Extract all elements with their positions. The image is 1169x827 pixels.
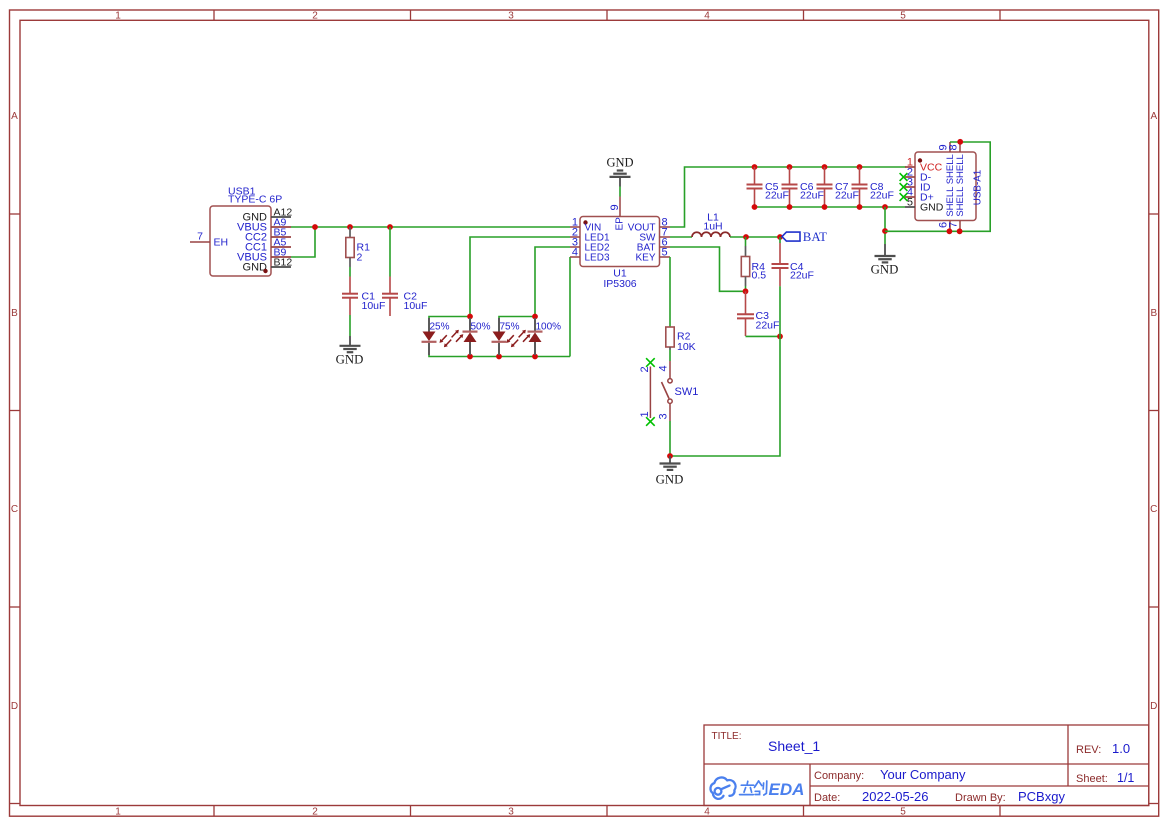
wire LED pair1 top rail	[429, 317, 470, 319]
junction gnd rail C5	[752, 204, 758, 210]
svg-text:4: 4	[704, 807, 710, 818]
svg-text:GND: GND	[243, 262, 268, 274]
svg-text:5: 5	[900, 807, 906, 818]
svg-text:9: 9	[609, 204, 621, 210]
wire VBUS net (USB1 A9 to U1 VIN)	[291, 226, 570, 228]
svg-text:2: 2	[312, 11, 318, 22]
svg-text:22uF: 22uF	[835, 190, 859, 202]
svg-text:1: 1	[115, 807, 121, 818]
junction shell/gnd	[882, 228, 888, 234]
LED 50%	[452, 318, 491, 355]
inductor L1 1uH	[692, 212, 730, 238]
svg-text:USB-A1: USB-A1	[973, 170, 984, 205]
junction VOUT at C7	[822, 164, 828, 170]
svg-text:LED3: LED3	[585, 253, 610, 264]
junction shell pin6	[947, 228, 953, 234]
pin 4 no-connect	[900, 193, 908, 201]
switch SW1	[639, 358, 698, 426]
svg-text:22uF: 22uF	[765, 190, 789, 202]
junction bottom rail 75%	[496, 354, 502, 360]
junction bottom rail 100%	[532, 354, 538, 360]
svg-text:B12: B12	[274, 257, 293, 269]
junction BAT at C4	[777, 234, 783, 240]
svg-text:3: 3	[508, 11, 514, 22]
svg-text:1/1: 1/1	[1117, 771, 1134, 785]
junction LED1 top rail	[467, 314, 473, 320]
wire SW to L1	[670, 236, 692, 238]
wire LED2 (U1 pin3 to 75/100 pair)	[535, 247, 570, 317]
capacitor C6 22uF	[782, 167, 824, 207]
wire LED bottom rail	[429, 355, 570, 357]
LED 100%	[519, 318, 562, 355]
wire SW1 to ground	[669, 421, 671, 456]
shell pins 9 8 top	[949, 142, 951, 152]
junction gnd rail C6	[787, 204, 793, 210]
svg-text:GND: GND	[606, 156, 633, 170]
junction LED2 top rail	[532, 314, 538, 320]
wire R1 to C1	[349, 267, 351, 277]
svg-text:22uF: 22uF	[870, 190, 894, 202]
svg-text:50%: 50%	[471, 322, 491, 333]
capacitor C1 10uF	[342, 277, 385, 316]
junction VBUS at R1	[347, 224, 353, 230]
junction VOUT at C8	[857, 164, 863, 170]
junction shell pin8	[957, 139, 963, 145]
svg-text:10K: 10K	[677, 341, 696, 353]
connector USB1 TYPE-C 6P	[190, 186, 292, 277]
capacitor C5 22uF	[747, 167, 789, 207]
svg-text:7: 7	[947, 222, 959, 228]
capacitor C7 22uF	[817, 167, 859, 207]
svg-text:3: 3	[508, 807, 514, 818]
pin 3 no-connect	[900, 183, 908, 191]
svg-text:Sheet_1: Sheet_1	[768, 738, 820, 754]
svg-text:5: 5	[900, 11, 906, 22]
svg-text:REV:: REV:	[1076, 744, 1101, 756]
svg-text:22uF: 22uF	[800, 190, 824, 202]
svg-text:GND: GND	[656, 473, 684, 487]
svg-text:SW1: SW1	[675, 386, 699, 398]
svg-text:1.0: 1.0	[1112, 741, 1130, 756]
svg-text:5: 5	[907, 197, 913, 209]
wire BAT node to R4	[745, 237, 747, 246]
wire EP to ground	[619, 187, 621, 197]
svg-text:D: D	[11, 701, 18, 712]
ground below SW1	[656, 456, 684, 487]
svg-text:10uF: 10uF	[404, 300, 428, 312]
LED 25%	[422, 318, 452, 355]
SW1 pin2 no-connect	[646, 358, 655, 367]
wire R2 to SW1	[669, 350, 671, 361]
svg-text:0.5: 0.5	[752, 269, 767, 281]
connector USB-A1	[900, 142, 984, 231]
svg-text:C: C	[1150, 504, 1157, 515]
svg-text:2022-05-26: 2022-05-26	[862, 789, 929, 804]
svg-text:1: 1	[115, 11, 121, 22]
wire KEY to R2	[669, 257, 671, 327]
shell pins 6 7 bottom	[949, 221, 951, 232]
svg-text:4: 4	[658, 365, 670, 371]
resistor R2 10K	[666, 327, 696, 353]
wire ground drop	[884, 207, 886, 244]
svg-text:EH: EH	[214, 237, 229, 249]
svg-text:Company:: Company:	[814, 770, 864, 782]
wire LED1 (U1 pin2 to 25/50 pair)	[470, 237, 570, 317]
svg-text:10uF: 10uF	[362, 300, 386, 312]
svg-text:1uH: 1uH	[703, 221, 722, 233]
LED 75%	[492, 318, 520, 355]
svg-text:EDA: EDA	[769, 780, 805, 799]
junction gnd rail drop	[882, 204, 888, 210]
capacitor C3 22uF	[737, 291, 779, 336]
svg-text:8: 8	[947, 144, 959, 150]
wire U1 BAT pin to R4/C3	[670, 247, 746, 291]
svg-text:TYPE-C 6P: TYPE-C 6P	[228, 194, 282, 206]
junction bottom rail 50%	[467, 354, 473, 360]
wire BAT node to C4	[779, 237, 781, 243]
junction VBUS at B9 link	[312, 224, 318, 230]
svg-text:PCBxgy: PCBxgy	[1018, 789, 1065, 804]
svg-text:Your Company: Your Company	[880, 767, 966, 782]
capacitor C2 10uF	[382, 277, 427, 317]
svg-text:GND: GND	[871, 263, 899, 277]
wire C4 to ground corner	[670, 286, 780, 456]
svg-text:Drawn By:: Drawn By:	[955, 792, 1006, 804]
resistor R1 2	[346, 227, 370, 267]
svg-text:D: D	[1150, 701, 1157, 712]
svg-text:7: 7	[197, 231, 203, 243]
junction VOUT at C6	[787, 164, 793, 170]
svg-text:GND: GND	[920, 202, 944, 214]
pin 2 no-connect	[900, 173, 908, 181]
wire shell loop	[885, 142, 990, 231]
junction gnd rail C7	[822, 204, 828, 210]
junction VOUT at C5	[752, 164, 758, 170]
ground below C1	[336, 336, 364, 366]
junction BAT at R4	[743, 234, 749, 240]
svg-text:100%: 100%	[536, 322, 562, 333]
svg-text:A: A	[1150, 111, 1157, 122]
svg-text:Date:: Date:	[814, 792, 840, 804]
svg-text:TITLE:: TITLE:	[712, 731, 742, 742]
junction R4/C3/BAT-pin	[743, 288, 749, 294]
svg-text:22uF: 22uF	[790, 269, 814, 281]
svg-text:75%: 75%	[500, 322, 520, 333]
svg-text:GND: GND	[336, 352, 364, 366]
wire LED3 (U1 pin4 to LED bottom rail)	[569, 257, 571, 357]
wire LED pair2 top rail	[499, 317, 535, 319]
junction VBUS at C2	[387, 224, 393, 230]
wire VBUS link from pin B9	[291, 227, 315, 257]
wire VOUT (U1 pin8 to cap bank and USB VCC)	[670, 167, 906, 227]
svg-text:22uF: 22uF	[756, 319, 780, 331]
net flag BAT	[782, 230, 827, 244]
svg-text:4: 4	[572, 247, 578, 259]
svg-text:A: A	[11, 111, 18, 122]
junction shell pin7	[957, 228, 963, 234]
svg-text:3: 3	[658, 413, 670, 419]
svg-text:2: 2	[639, 366, 651, 372]
svg-text:25%: 25%	[430, 322, 450, 333]
svg-text:C: C	[11, 504, 18, 515]
svg-text:2: 2	[312, 807, 318, 818]
svg-text:EP: EP	[615, 217, 626, 231]
svg-text:IP5306: IP5306	[603, 278, 636, 290]
junction C3/C4 gnd	[777, 334, 783, 340]
capacitor C8 22uF	[852, 167, 894, 207]
capacitor C4 22uF	[772, 243, 814, 286]
ground below USB-A1	[871, 244, 899, 277]
svg-text:KEY: KEY	[635, 253, 655, 264]
svg-text:B: B	[11, 308, 18, 319]
wire L1 to BAT node	[730, 236, 780, 238]
wire C1 to ground	[349, 315, 351, 336]
ground above U1 (flipped)	[606, 156, 633, 187]
wire C3 to gnd run	[746, 335, 781, 337]
svg-text:BAT: BAT	[803, 230, 827, 244]
op-amp U1 IP5306 power bank IC	[570, 197, 670, 291]
svg-text:SHELL SHELL: SHELL SHELL	[955, 154, 966, 217]
junction ground node	[667, 453, 673, 459]
svg-text:2: 2	[357, 252, 363, 264]
junction gnd rail C8	[857, 204, 863, 210]
wire R4 to junction	[745, 286, 747, 291]
svg-text:Sheet:: Sheet:	[1076, 773, 1108, 785]
svg-text:4: 4	[704, 11, 710, 22]
svg-text:1: 1	[639, 411, 651, 417]
SW1 pin1 no-connect	[646, 417, 655, 426]
resistor R4 0.5	[741, 246, 766, 286]
svg-text:5: 5	[662, 247, 668, 259]
wire cap bank ground rail to USB GND pin	[755, 206, 906, 208]
wire VBUS to C2	[389, 227, 391, 277]
svg-text:B: B	[1150, 308, 1157, 319]
pin 9 EP	[619, 197, 621, 217]
